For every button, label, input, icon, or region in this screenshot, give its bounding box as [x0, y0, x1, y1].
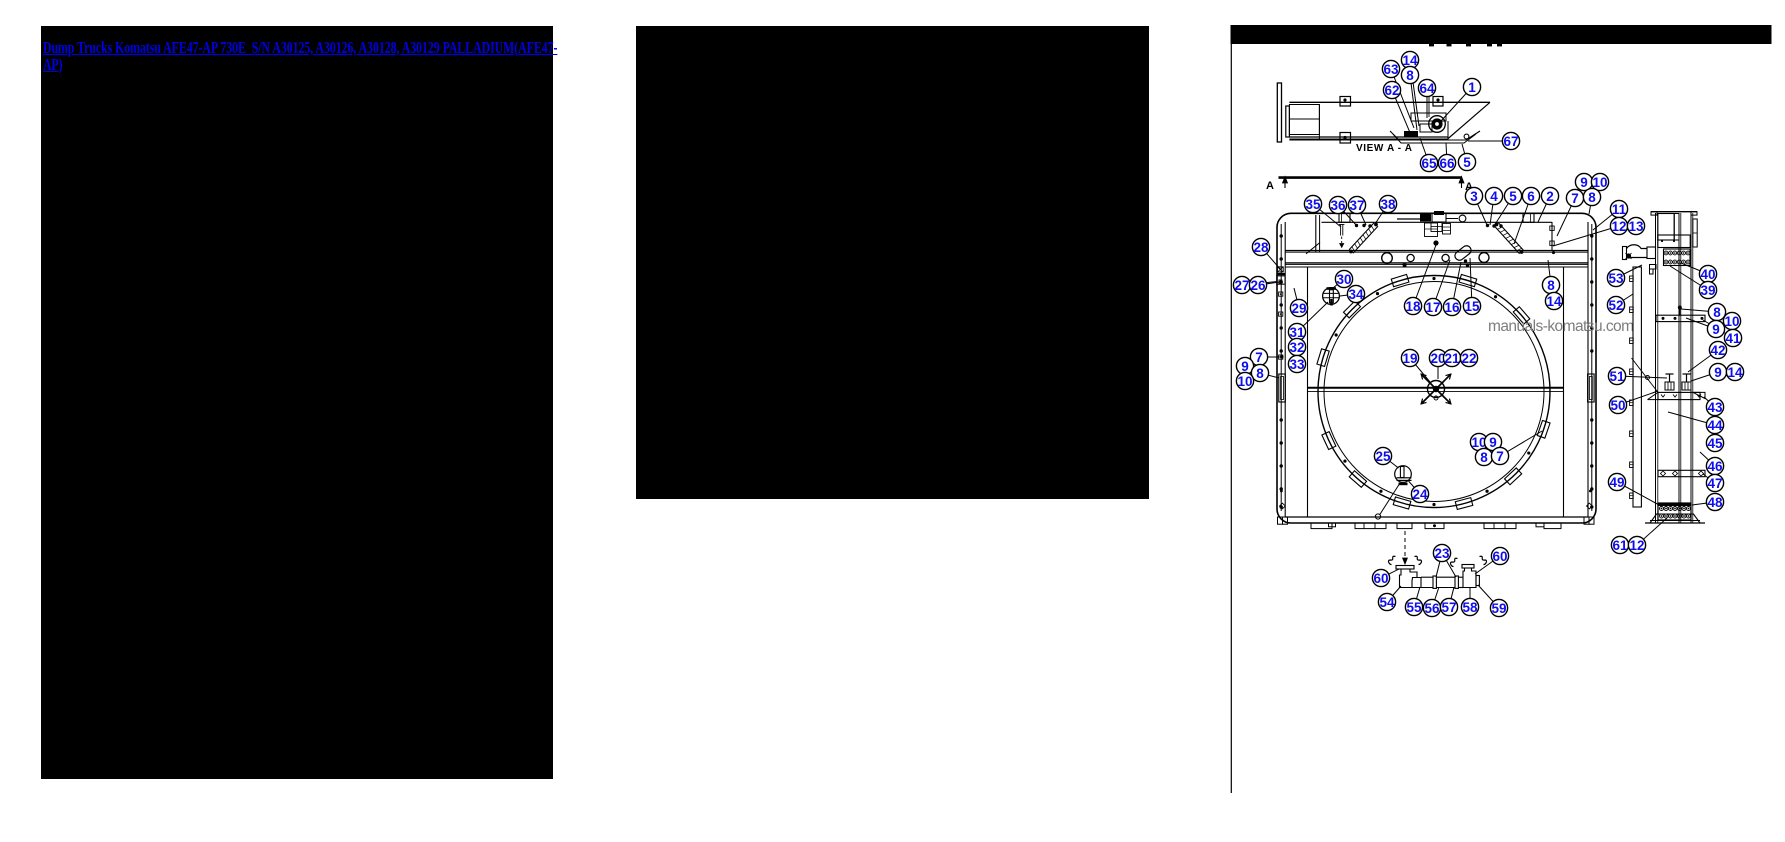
core right edge	[1563, 267, 1565, 518]
svg-text:5: 5	[1509, 189, 1517, 204]
side flange strip	[1633, 267, 1641, 507]
hose squiggle 3	[1450, 558, 1457, 566]
callout 49	[1608, 473, 1625, 490]
callout 36	[1329, 196, 1346, 213]
callout 60	[1372, 569, 1389, 586]
svg-text:51: 51	[1609, 369, 1625, 384]
callout 14	[1545, 292, 1562, 309]
svg-text:37: 37	[1349, 198, 1364, 213]
callout 16	[1443, 298, 1460, 315]
callout 22	[1460, 349, 1477, 366]
callout 56	[1423, 599, 1440, 616]
svg-text:34: 34	[1348, 287, 1364, 302]
callout 15	[1463, 297, 1480, 314]
svg-text:32: 32	[1289, 340, 1304, 355]
svg-text:9: 9	[1580, 175, 1588, 190]
lower core fitting	[1395, 466, 1412, 483]
svg-text:66: 66	[1439, 156, 1455, 171]
callout 9	[1709, 363, 1726, 380]
svg-text:15: 15	[1464, 299, 1480, 314]
callout 21	[1443, 349, 1460, 366]
callout 9	[1484, 433, 1501, 450]
page header black bar	[1231, 25, 1772, 44]
svg-text:40: 40	[1700, 267, 1715, 282]
svg-text:26: 26	[1250, 278, 1266, 293]
callout 23	[1433, 544, 1450, 561]
svg-text:12: 12	[1629, 538, 1644, 553]
svg-text:7: 7	[1255, 350, 1263, 365]
svg-text:63: 63	[1383, 62, 1399, 77]
callout 64	[1418, 79, 1435, 96]
callout 10	[1723, 312, 1740, 329]
left channel square bolts	[1279, 292, 1283, 296]
callout 63	[1382, 60, 1399, 77]
svg-text:48: 48	[1707, 495, 1723, 510]
callout 9	[1575, 173, 1592, 190]
svg-text:8: 8	[1547, 278, 1555, 293]
svg-text:25: 25	[1375, 449, 1391, 464]
callout 31	[1288, 323, 1305, 340]
callout 13	[1627, 217, 1644, 234]
callout 14	[1726, 363, 1743, 380]
svg-text:65: 65	[1421, 156, 1437, 171]
callout 28	[1252, 238, 1269, 255]
callout 8	[1708, 303, 1725, 320]
svg-text:7: 7	[1571, 191, 1579, 206]
callout 10	[1236, 372, 1253, 389]
svg-text:10: 10	[1237, 374, 1252, 389]
band small bolts	[1403, 263, 1407, 267]
top tank	[1322, 221, 1553, 223]
svg-text:9: 9	[1714, 365, 1722, 380]
svg-text:52: 52	[1608, 298, 1623, 313]
callout 8	[1475, 448, 1492, 465]
svg-text:55: 55	[1406, 600, 1422, 615]
callout 62	[1383, 81, 1400, 98]
svg-text:42: 42	[1710, 343, 1725, 358]
left black screenshot box	[41, 26, 553, 779]
top lifting bracket	[1397, 218, 1420, 220]
svg-text:61: 61	[1612, 538, 1628, 553]
callout 37	[1348, 196, 1365, 213]
drain pipe assembly	[1396, 566, 1414, 570]
left channel	[1284, 222, 1286, 517]
svg-text:41: 41	[1725, 331, 1741, 346]
breadcrumb link text	[43, 40, 555, 73]
svg-text:53: 53	[1608, 271, 1624, 286]
callout 35	[1304, 195, 1321, 212]
section line A-A	[1279, 176, 1463, 179]
callout 12	[1610, 217, 1627, 234]
svg-text:58: 58	[1462, 600, 1478, 615]
svg-text:44: 44	[1707, 418, 1723, 433]
callout 41	[1724, 329, 1741, 346]
hose squiggle 4	[1480, 556, 1487, 564]
callout 4	[1485, 187, 1502, 204]
svg-text:13: 13	[1628, 219, 1644, 234]
svg-text:11: 11	[1612, 202, 1627, 217]
view A-A clips	[1340, 97, 1351, 107]
ring clamp tabs	[1513, 307, 1530, 324]
leader end dot	[1280, 355, 1283, 358]
callout 19	[1401, 349, 1418, 366]
svg-text:56: 56	[1424, 601, 1440, 616]
tilted hose part	[1453, 244, 1473, 262]
callout 14	[1401, 51, 1418, 68]
svg-text:8: 8	[1256, 366, 1264, 381]
svg-text:8: 8	[1480, 450, 1488, 465]
view A-A tray end dot	[1464, 134, 1469, 139]
svg-text:29: 29	[1291, 301, 1306, 316]
frame bottom corners	[1278, 517, 1283, 524]
callout 59	[1490, 599, 1507, 616]
callout 40	[1699, 265, 1716, 282]
callout 66	[1438, 154, 1455, 171]
tank cap right	[1523, 214, 1534, 223]
svg-text:1: 1	[1468, 80, 1476, 95]
side foot bolt box	[1658, 503, 1691, 520]
view A-A fan motor	[1429, 116, 1446, 133]
main frame outline	[1277, 213, 1596, 523]
bottom dashed arrow	[1404, 531, 1406, 560]
callout 1	[1463, 78, 1480, 95]
tank dashed box	[1425, 223, 1438, 237]
callout 33	[1288, 355, 1305, 372]
callout 47	[1706, 474, 1723, 491]
callout 12	[1628, 536, 1645, 553]
upper-left core fitting	[1323, 288, 1340, 305]
svg-text:46: 46	[1707, 459, 1723, 474]
left channel slot	[1279, 374, 1286, 402]
bar1 bolt	[1679, 307, 1681, 315]
callout 2	[1541, 187, 1558, 204]
callout 46	[1706, 457, 1723, 474]
side right strip	[1693, 219, 1697, 247]
svg-text:38: 38	[1380, 197, 1396, 212]
callout 34	[1347, 285, 1364, 302]
middle black screenshot box	[636, 26, 1149, 499]
svg-text:60: 60	[1373, 571, 1388, 586]
callout 42	[1709, 341, 1726, 358]
svg-text:8: 8	[1713, 305, 1721, 320]
bolt 35 dashed pointer	[1340, 225, 1342, 236]
callout 55	[1405, 598, 1422, 615]
fitting leader to bottom	[1380, 483, 1401, 515]
svg-text:54: 54	[1379, 595, 1395, 610]
left rail steps	[1650, 265, 1657, 270]
svg-text:49: 49	[1609, 475, 1624, 490]
side base plate	[1650, 514, 1700, 523]
band bolt 4	[1479, 253, 1489, 263]
side view rails	[1655, 213, 1657, 523]
callout 65	[1420, 154, 1437, 171]
svg-text:23: 23	[1434, 546, 1450, 561]
callout 20	[1429, 349, 1446, 366]
callout 8	[1401, 66, 1418, 83]
callout 11	[1610, 200, 1627, 217]
header band top	[1285, 249, 1588, 251]
view A-A radiator beam	[1277, 83, 1281, 142]
callout 45	[1706, 434, 1723, 451]
svg-text:9: 9	[1712, 322, 1720, 337]
left diagonal brace	[1349, 223, 1374, 250]
callout 57	[1440, 598, 1457, 615]
svg-text:60: 60	[1492, 549, 1507, 564]
mounting feet	[1311, 523, 1332, 529]
callout 27	[1233, 276, 1250, 293]
svg-text:manuals-komatsu.com: manuals-komatsu.com	[1488, 318, 1634, 335]
svg-text:14: 14	[1546, 294, 1562, 309]
svg-text:64: 64	[1419, 81, 1435, 96]
callout 39	[1699, 281, 1716, 298]
svg-text:4: 4	[1490, 189, 1498, 204]
svg-text:57: 57	[1441, 600, 1456, 615]
callout 7	[1566, 189, 1583, 206]
svg-text:50: 50	[1610, 398, 1625, 413]
right channel bolts	[1590, 234, 1593, 237]
callout 18	[1404, 297, 1421, 314]
svg-text:45: 45	[1707, 436, 1723, 451]
corner diamond bolts	[1280, 503, 1286, 509]
left channel bolts	[1280, 234, 1283, 237]
T-pin left	[1666, 373, 1674, 375]
side mid bracket	[1658, 392, 1700, 399]
callout leader lines	[1410, 60, 1419, 126]
svg-text:21: 21	[1444, 351, 1460, 366]
svg-text:22: 22	[1461, 351, 1476, 366]
side upper box	[1658, 235, 1690, 248]
svg-text:10: 10	[1724, 314, 1739, 329]
svg-text:35: 35	[1305, 197, 1321, 212]
core left edge	[1307, 267, 1309, 518]
callout 17	[1424, 298, 1441, 315]
svg-text:VIEW A - A: VIEW A - A	[1356, 143, 1413, 154]
svg-text:2: 2	[1546, 189, 1554, 204]
callout 29	[1290, 299, 1307, 316]
side bolt box	[1664, 249, 1691, 266]
callout 5	[1458, 153, 1475, 170]
callout 67	[1502, 132, 1519, 149]
callout 8	[1251, 364, 1268, 381]
callout 30	[1335, 270, 1352, 287]
callout 8	[1542, 276, 1559, 293]
svg-text:8: 8	[1588, 190, 1596, 205]
callout 61	[1611, 536, 1628, 553]
band bolt 1	[1382, 253, 1393, 264]
main frame inner edges	[1280, 224, 1282, 511]
callout 10	[1591, 173, 1608, 190]
callout 38	[1379, 195, 1396, 212]
callout 51	[1608, 367, 1625, 384]
svg-text:67: 67	[1503, 134, 1518, 149]
callout 50	[1609, 396, 1626, 413]
svg-text:47: 47	[1707, 476, 1722, 491]
tank edge square bolts	[1550, 226, 1554, 230]
band bolt 2	[1407, 254, 1414, 261]
svg-text:3: 3	[1470, 189, 1478, 204]
side view top cap	[1651, 211, 1697, 213]
callout 44	[1706, 416, 1723, 433]
right channel	[1587, 222, 1589, 517]
right channel slot	[1588, 374, 1595, 402]
callout 8	[1583, 188, 1600, 205]
bottom band	[1285, 516, 1588, 518]
callout 3	[1465, 187, 1482, 204]
svg-text:24: 24	[1412, 487, 1428, 502]
band bolt 3	[1442, 254, 1449, 261]
callout 52	[1607, 296, 1624, 313]
callout 7	[1491, 447, 1508, 464]
callout 60	[1491, 547, 1508, 564]
svg-text:8: 8	[1406, 68, 1414, 83]
callout 9	[1236, 357, 1253, 374]
hose squiggle 1	[1388, 556, 1395, 564]
svg-text:33: 33	[1289, 357, 1305, 372]
side cross bar 1	[1656, 315, 1705, 321]
callout 25	[1374, 447, 1391, 464]
svg-text:28: 28	[1253, 240, 1269, 255]
svg-text:39: 39	[1700, 283, 1715, 298]
core center line	[1308, 387, 1564, 389]
callout 6	[1522, 187, 1539, 204]
fan shroud ring	[1318, 276, 1550, 508]
callout 54	[1378, 593, 1395, 610]
callout 43	[1706, 398, 1723, 415]
callout 9	[1707, 320, 1724, 337]
svg-text:7: 7	[1496, 449, 1504, 464]
svg-text:6: 6	[1527, 189, 1535, 204]
side cross bar 2	[1658, 470, 1705, 476]
svg-text:62: 62	[1384, 83, 1399, 98]
svg-text:18: 18	[1405, 299, 1421, 314]
svg-text:5: 5	[1463, 155, 1471, 170]
fan hub spinner	[1436, 374, 1451, 389]
svg-text:12: 12	[1611, 219, 1626, 234]
callout 7	[1250, 348, 1267, 365]
view A-A tray	[1390, 131, 1480, 140]
callout 5	[1504, 187, 1521, 204]
svg-text:16: 16	[1444, 300, 1460, 315]
header band bottom	[1285, 262, 1588, 264]
svg-text:36: 36	[1330, 198, 1346, 213]
callout 48	[1706, 493, 1723, 510]
side top box	[1658, 214, 1674, 241]
hose squiggle 2	[1415, 556, 1422, 564]
right diagonal brace	[1495, 226, 1520, 254]
T-pin right	[1683, 373, 1691, 375]
callout 26	[1249, 276, 1266, 293]
svg-text:43: 43	[1707, 400, 1723, 415]
callout 53	[1607, 269, 1624, 286]
svg-text:59: 59	[1491, 601, 1506, 616]
callout 58	[1461, 598, 1478, 615]
callout 24	[1411, 485, 1428, 502]
svg-text:27: 27	[1234, 278, 1249, 293]
page left border line	[1230, 44, 1232, 793]
svg-text:30: 30	[1336, 272, 1351, 287]
svg-text:A: A	[1266, 180, 1274, 192]
svg-text:10: 10	[1592, 175, 1607, 190]
left clip bracket	[1277, 267, 1283, 272]
svg-text:17: 17	[1425, 300, 1440, 315]
svg-text:19: 19	[1402, 351, 1417, 366]
header text descenders	[1429, 44, 1434, 46]
inlet elbow pipe	[1627, 257, 1648, 259]
callout 32	[1288, 338, 1305, 355]
callout 10	[1470, 433, 1487, 450]
svg-text:14: 14	[1727, 365, 1743, 380]
tank cap left	[1339, 214, 1350, 223]
